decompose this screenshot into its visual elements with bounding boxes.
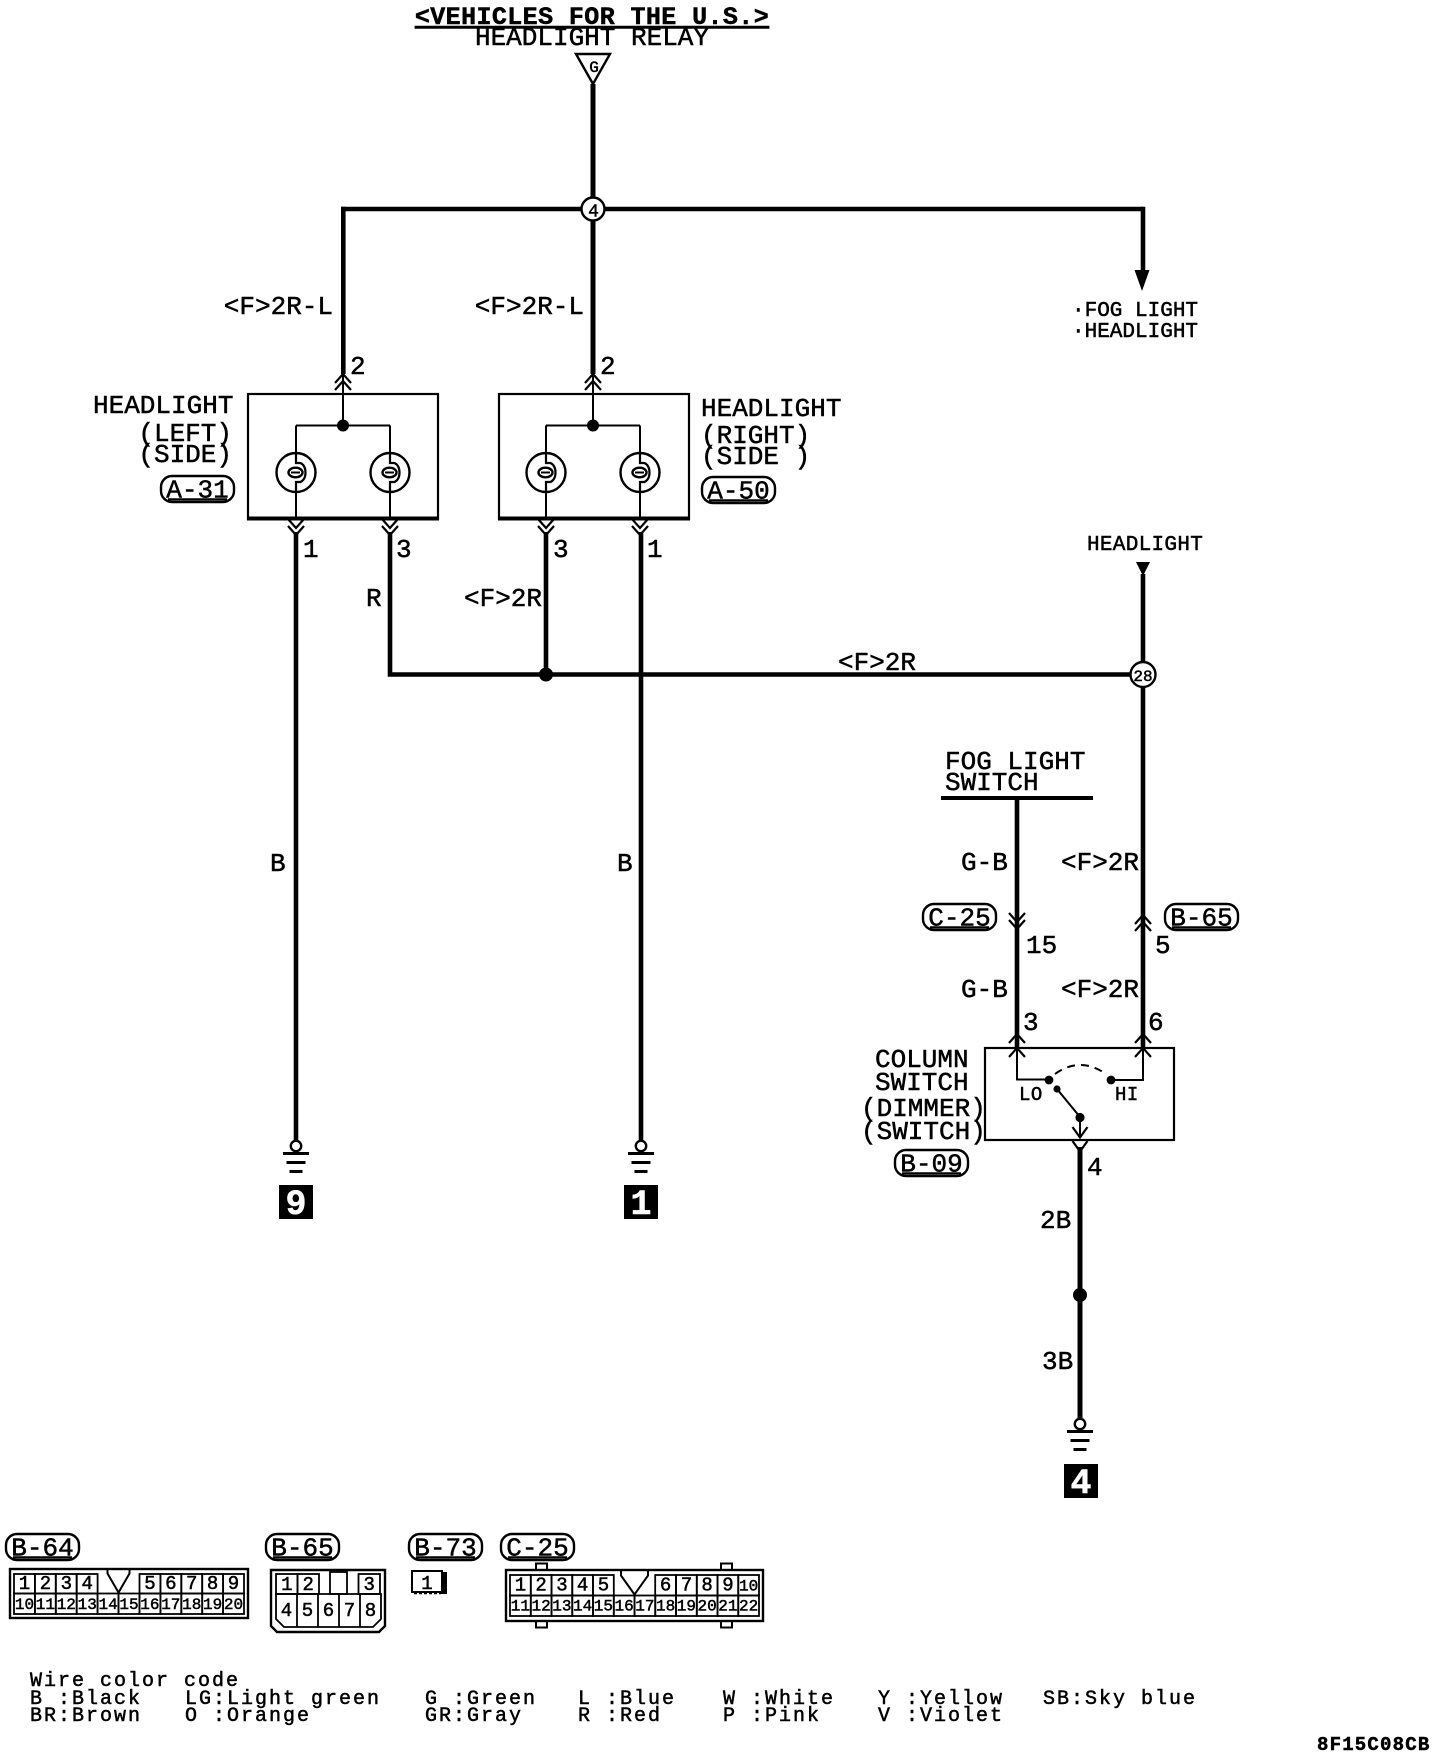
wire inside headlight right bbox=[546, 394, 640, 453]
wire (F)2R from junction 28 down to dimmer switch bbox=[1141, 687, 1146, 1048]
connector chevron pin 2 right bbox=[585, 374, 601, 390]
svg-text:7: 7 bbox=[344, 1600, 355, 1622]
svg-text:BR:Brown: BR:Brown bbox=[30, 1705, 142, 1728]
connector B-64 pin view bbox=[10, 1569, 248, 1618]
svg-text:10: 10 bbox=[15, 1596, 34, 1614]
svg-text:1: 1 bbox=[303, 535, 319, 565]
svg-text:17: 17 bbox=[161, 1596, 180, 1614]
ground tag 4 bbox=[1064, 1464, 1098, 1504]
fog light switch base bar bbox=[941, 796, 1093, 800]
svg-text:<F>2R: <F>2R bbox=[838, 648, 916, 678]
svg-text:3: 3 bbox=[1023, 1008, 1039, 1038]
svg-text:HEADLIGHT RELAY: HEADLIGHT RELAY bbox=[475, 23, 709, 53]
svg-text:O :Orange: O :Orange bbox=[185, 1705, 311, 1728]
connector code C-25 inline bbox=[923, 904, 996, 934]
svg-text:18: 18 bbox=[656, 1598, 675, 1616]
svg-text:8F15C08CB: 8F15C08CB bbox=[1317, 1734, 1430, 1756]
svg-text:12: 12 bbox=[531, 1598, 550, 1616]
svg-text:10: 10 bbox=[739, 1578, 758, 1596]
connector chevron B-65 pin 5 bbox=[1135, 915, 1151, 931]
svg-text:2: 2 bbox=[535, 1575, 546, 1597]
headlight left box bbox=[247, 394, 439, 519]
svg-text:B: B bbox=[270, 849, 286, 879]
ground tag 9 bbox=[279, 1185, 313, 1225]
svg-text:6: 6 bbox=[660, 1575, 671, 1597]
svg-text:B-09: B-09 bbox=[900, 1150, 962, 1180]
wire left branch to headlight left bbox=[341, 207, 346, 374]
arrowhead to fog light / headlight bbox=[1135, 270, 1150, 291]
contact dot LO bbox=[1045, 1076, 1054, 1085]
svg-text:9: 9 bbox=[722, 1575, 733, 1597]
svg-text:<F>2R: <F>2R bbox=[1061, 848, 1139, 878]
svg-text:3: 3 bbox=[556, 1575, 567, 1597]
svg-text:13: 13 bbox=[552, 1598, 571, 1616]
connector chevron C-25 pin 15 bbox=[1009, 913, 1025, 929]
bulb left inner bbox=[371, 453, 410, 492]
svg-text:3: 3 bbox=[61, 1573, 72, 1595]
wire (F)2R-L from relay to junction 4 bbox=[591, 84, 596, 209]
svg-text:1: 1 bbox=[19, 1573, 30, 1595]
connector chevron dimmer pin 3 bbox=[1009, 1034, 1025, 1057]
svg-text:1: 1 bbox=[630, 1185, 651, 1225]
junction dot bus bbox=[539, 668, 553, 682]
svg-text:<F>2R-L: <F>2R-L bbox=[224, 292, 333, 322]
svg-text:5: 5 bbox=[302, 1600, 313, 1622]
wire right branch to fog light / headlight bbox=[1141, 207, 1146, 271]
svg-text:22: 22 bbox=[739, 1598, 758, 1616]
svg-text:A-31: A-31 bbox=[166, 476, 228, 506]
svg-text:17: 17 bbox=[635, 1598, 654, 1616]
svg-text:3: 3 bbox=[396, 535, 412, 565]
label HEADLIGHT (RIGHT SIDE) bbox=[701, 394, 841, 472]
svg-text:B-73: B-73 bbox=[414, 1534, 476, 1564]
headlight right box bbox=[498, 394, 690, 519]
connector code C-25 (bottom) bbox=[501, 1534, 574, 1564]
label FOG LIGHT SWITCH bbox=[945, 747, 1085, 798]
wire bulb exits right bbox=[546, 492, 640, 519]
svg-text:B-64: B-64 bbox=[11, 1534, 73, 1564]
junction dot inside headlight left bbox=[337, 420, 349, 432]
svg-text:4: 4 bbox=[1070, 1464, 1091, 1504]
svg-text:16: 16 bbox=[140, 1596, 159, 1614]
wire dimmer LO contact bbox=[1017, 1048, 1046, 1080]
wire B right headlight ground bbox=[639, 532, 644, 1141]
svg-text:13: 13 bbox=[78, 1596, 97, 1614]
wire dimmer HI contact bbox=[1114, 1048, 1143, 1080]
svg-text:15: 15 bbox=[594, 1598, 613, 1616]
svg-text:HEADLIGHT: HEADLIGHT bbox=[93, 391, 233, 421]
wire 2B from dimmer bbox=[1078, 1147, 1083, 1295]
svg-text:1: 1 bbox=[515, 1575, 526, 1597]
svg-text:2: 2 bbox=[40, 1573, 51, 1595]
svg-text:·HEADLIGHT: ·HEADLIGHT bbox=[1072, 321, 1198, 344]
svg-text:LO: LO bbox=[1019, 1084, 1043, 1106]
svg-text:12: 12 bbox=[57, 1596, 76, 1614]
svg-text:5: 5 bbox=[144, 1573, 155, 1595]
connector code B-09 bbox=[895, 1150, 968, 1180]
svg-text:7: 7 bbox=[186, 1573, 197, 1595]
connector chevron dimmer pin 6 bbox=[1135, 1034, 1151, 1057]
connector chevrons below headlight left bbox=[288, 519, 304, 535]
bulb right outer bbox=[527, 453, 566, 492]
wire headlight feed down to junction 28 bbox=[1141, 574, 1146, 674]
headlight relay source triangle G bbox=[576, 54, 610, 84]
svg-text:G-B: G-B bbox=[961, 975, 1008, 1005]
wire B left headlight ground bbox=[294, 532, 299, 1141]
svg-text:<F>2R: <F>2R bbox=[1061, 975, 1139, 1005]
svg-text:28: 28 bbox=[1133, 668, 1152, 686]
bulb right inner bbox=[621, 453, 660, 492]
svg-text:2: 2 bbox=[600, 352, 616, 382]
wire (F)2R from headlight right pin 3 bbox=[544, 532, 549, 676]
wire (F)2R bus to junction 28 bbox=[546, 672, 1143, 677]
svg-text:5: 5 bbox=[1155, 931, 1171, 961]
svg-text:V :Violet: V :Violet bbox=[878, 1705, 1004, 1728]
wire middle branch to headlight right bbox=[591, 209, 596, 374]
bulb left outer bbox=[277, 453, 316, 492]
svg-text:15: 15 bbox=[1026, 931, 1057, 961]
junction circle 28 bbox=[1131, 662, 1156, 687]
ground tag 1 bbox=[624, 1185, 658, 1225]
svg-text:8: 8 bbox=[207, 1573, 218, 1595]
wire bulb exits left bbox=[296, 492, 390, 519]
svg-text:19: 19 bbox=[203, 1596, 222, 1614]
svg-text:C-25: C-25 bbox=[928, 904, 990, 934]
svg-text:3B: 3B bbox=[1042, 1347, 1073, 1377]
svg-text:2: 2 bbox=[350, 352, 366, 382]
svg-text:SB:Sky blue: SB:Sky blue bbox=[1043, 1688, 1197, 1711]
svg-text:6: 6 bbox=[165, 1573, 176, 1595]
svg-text:B-65: B-65 bbox=[1170, 904, 1232, 934]
wire inside headlight left bbox=[296, 394, 390, 453]
svg-text:11: 11 bbox=[36, 1596, 55, 1614]
connector code A-50 bbox=[702, 477, 775, 507]
column switch dimmer box B-09 bbox=[985, 1048, 1174, 1140]
junction dot inside headlight right bbox=[587, 420, 599, 432]
connector B-73 pin view bbox=[412, 1571, 447, 1595]
svg-text:R :Red: R :Red bbox=[578, 1705, 662, 1728]
wire 3B to ground bbox=[1078, 1295, 1083, 1419]
svg-text:4: 4 bbox=[1087, 1153, 1103, 1183]
svg-text:<F>2R: <F>2R bbox=[464, 584, 542, 614]
svg-text:SWITCH: SWITCH bbox=[945, 768, 1039, 798]
svg-text:15: 15 bbox=[119, 1596, 138, 1614]
svg-text:4: 4 bbox=[81, 1573, 92, 1595]
svg-text:14: 14 bbox=[98, 1596, 117, 1614]
svg-text:4: 4 bbox=[588, 203, 599, 223]
svg-text:18: 18 bbox=[182, 1596, 201, 1614]
arrowhead from headlight feed bbox=[1136, 562, 1150, 576]
svg-text:20: 20 bbox=[697, 1598, 716, 1616]
connector code B-64 (bottom) bbox=[6, 1534, 79, 1564]
label COLUMN SWITCH (DIMMER) (SWITCH) bbox=[861, 1045, 986, 1147]
connector code A-31 bbox=[161, 476, 234, 506]
label HEADLIGHT (LEFT SIDE) bbox=[93, 391, 233, 470]
svg-text:3: 3 bbox=[553, 535, 569, 565]
splice dot bbox=[1073, 1288, 1087, 1302]
svg-text:R: R bbox=[366, 584, 382, 614]
contact dot HI bbox=[1107, 1076, 1116, 1085]
svg-text:HEADLIGHT: HEADLIGHT bbox=[1087, 534, 1203, 557]
switch lever bbox=[1053, 1085, 1087, 1151]
wire R from headlight left pin 3 to bus bbox=[390, 532, 548, 675]
svg-text:·FOG LIGHT: ·FOG LIGHT bbox=[1072, 300, 1198, 323]
connector code B-73 (bottom) bbox=[409, 1534, 482, 1564]
wire main horizontal bus y=209 bbox=[341, 207, 1143, 212]
svg-text:8: 8 bbox=[701, 1575, 712, 1597]
svg-text:G-B: G-B bbox=[961, 848, 1008, 878]
svg-text:P :Pink: P :Pink bbox=[723, 1705, 821, 1728]
svg-text:9: 9 bbox=[228, 1573, 239, 1595]
dashed switch arc LO-HI bbox=[1055, 1065, 1106, 1074]
svg-text:2B: 2B bbox=[1040, 1206, 1071, 1236]
ground right headlight bbox=[628, 1141, 654, 1172]
svg-text:6: 6 bbox=[323, 1600, 334, 1622]
wire G-B fog light switch down bbox=[1015, 798, 1020, 1048]
svg-text:(SWITCH): (SWITCH) bbox=[861, 1117, 986, 1147]
svg-text:14: 14 bbox=[573, 1598, 592, 1616]
svg-text:<F>2R-L: <F>2R-L bbox=[475, 292, 584, 322]
connector B-65 pin view bbox=[271, 1570, 385, 1632]
svg-text:C-25: C-25 bbox=[506, 1534, 568, 1564]
svg-text:5: 5 bbox=[598, 1575, 609, 1597]
connector code B-65 (bottom) bbox=[266, 1534, 339, 1564]
svg-text:HI: HI bbox=[1115, 1084, 1139, 1106]
svg-text:6: 6 bbox=[1148, 1008, 1164, 1038]
connector chevrons below headlight right bbox=[538, 519, 554, 535]
svg-text:A-50: A-50 bbox=[707, 477, 769, 507]
svg-text:3: 3 bbox=[363, 1574, 374, 1596]
svg-text:16: 16 bbox=[614, 1598, 633, 1616]
svg-text:19: 19 bbox=[677, 1598, 696, 1616]
svg-text:(SIDE ): (SIDE ) bbox=[701, 442, 810, 472]
svg-text:1: 1 bbox=[647, 535, 663, 565]
svg-text:8: 8 bbox=[365, 1600, 376, 1622]
ground dimmer bbox=[1067, 1419, 1093, 1450]
svg-text:2: 2 bbox=[302, 1574, 313, 1596]
ground left headlight bbox=[283, 1141, 309, 1172]
svg-text:1: 1 bbox=[281, 1574, 292, 1596]
svg-text:G: G bbox=[589, 59, 599, 77]
svg-text:11: 11 bbox=[511, 1598, 530, 1616]
svg-text:9: 9 bbox=[285, 1185, 306, 1225]
connector C-25 pin view bbox=[506, 1564, 763, 1628]
svg-text:20: 20 bbox=[224, 1596, 243, 1614]
svg-text:B-65: B-65 bbox=[271, 1534, 333, 1564]
svg-text:4: 4 bbox=[281, 1600, 292, 1622]
svg-text:4: 4 bbox=[577, 1575, 588, 1597]
junction circle 4 bbox=[582, 198, 605, 223]
connector code B-65 inline bbox=[1165, 904, 1238, 934]
svg-text:21: 21 bbox=[718, 1598, 737, 1616]
svg-text:7: 7 bbox=[681, 1575, 692, 1597]
svg-text:1: 1 bbox=[421, 1573, 432, 1595]
svg-text:GR:Gray: GR:Gray bbox=[425, 1705, 523, 1728]
svg-text:(SIDE): (SIDE) bbox=[138, 440, 232, 470]
svg-text:B: B bbox=[617, 849, 633, 879]
wire color code legend bbox=[30, 1670, 1197, 1728]
svg-text:HEADLIGHT: HEADLIGHT bbox=[701, 394, 841, 424]
connector chevron pin 2 left bbox=[335, 374, 351, 390]
